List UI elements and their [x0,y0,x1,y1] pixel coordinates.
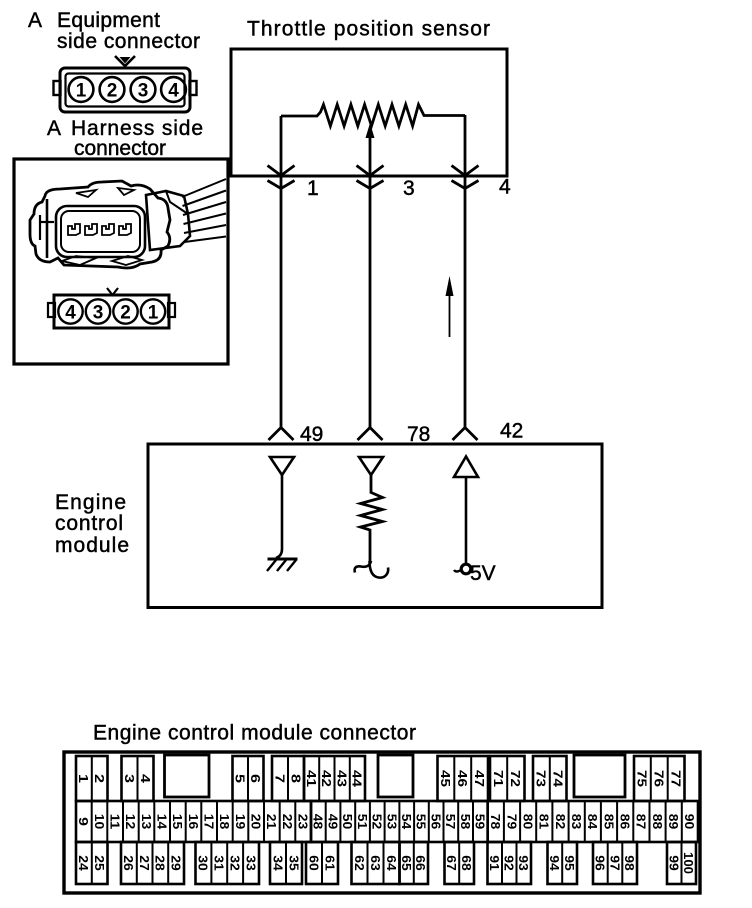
svg-text:55: 55 [414,814,429,830]
svg-text:78: 78 [488,814,503,830]
connector pin group row1 5-6 [233,756,264,801]
svg-text:2: 2 [120,303,131,324]
svg-text:54: 54 [399,814,414,830]
svg-text:47: 47 [472,770,487,787]
connector fork at ECM pin 49 [269,428,294,441]
svg-text:26: 26 [121,855,136,871]
svg-text:Equipment: Equipment [57,9,160,32]
svg-text:60: 60 [306,855,321,871]
svg-text:3: 3 [403,177,415,200]
blank key block row1 right [574,755,625,797]
svg-text:13: 13 [139,814,154,830]
svg-text:84: 84 [585,814,600,830]
svg-text:19: 19 [233,814,248,830]
svg-text:59: 59 [473,814,488,830]
svg-text:63: 63 [368,855,383,871]
svg-text:95: 95 [562,855,577,871]
svg-text:31: 31 [212,855,227,871]
svg-text:77: 77 [668,770,683,787]
svg-text:96: 96 [593,855,608,871]
ECM pin 78 input triangle [359,457,383,475]
svg-text:15: 15 [170,814,185,830]
svg-text:connector: connector [74,137,166,160]
svg-text:module: module [55,534,129,557]
svg-text:1: 1 [76,81,87,102]
svg-text:93: 93 [516,855,531,871]
connector pin group row3 99-100 [667,842,697,884]
svg-text:1: 1 [148,303,159,324]
svg-text:18: 18 [217,814,232,830]
svg-text:94: 94 [547,855,562,871]
connector pin group row3 34-35 [270,842,302,884]
wire: pin 42 to 5V [465,477,468,564]
svg-text:43: 43 [334,770,349,787]
svg-text:3: 3 [122,774,137,783]
svg-text:76: 76 [652,770,667,787]
connector pin group row1 3-4 [122,756,154,801]
svg-text:17: 17 [202,814,217,830]
connector pin group row1 1-2 [76,756,108,801]
connector pin group row3 26-29 [121,842,184,884]
svg-text:24: 24 [76,855,91,871]
svg-text:86: 86 [618,814,633,830]
svg-text:34: 34 [270,855,285,871]
svg-text:20: 20 [249,814,264,830]
svg-text:29: 29 [168,855,183,871]
svg-text:3: 3 [138,81,149,102]
svg-text:25: 25 [92,855,107,871]
svg-text:27: 27 [137,855,152,871]
svg-text:side connector: side connector [57,30,200,53]
svg-text:3: 3 [93,303,104,324]
svg-text:32: 32 [228,855,243,871]
wire: pin 49 to ground [276,475,282,558]
potentiometer resistor (TPS) [281,105,465,127]
svg-text:48: 48 [311,814,326,830]
resistor R (ECM internal) [361,475,383,562]
svg-text:10: 10 [92,814,107,830]
svg-text:8: 8 [288,774,303,783]
svg-text:89: 89 [666,814,681,830]
svg-text:67: 67 [444,855,459,871]
connector pin group row3 96-98 [593,842,637,884]
connector pin group row1 71-72 [490,756,525,801]
svg-text:46: 46 [455,770,470,787]
svg-text:28: 28 [153,855,168,871]
connector pin group row3 30-33 [196,842,260,884]
svg-text:1: 1 [307,177,319,200]
ground symbol [267,559,298,571]
svg-text:control: control [55,512,123,535]
svg-text:79: 79 [504,814,519,830]
wire: TPS terminal 1 to ECM pin 49 [280,116,283,427]
connector fork at ECM pin 42 [453,428,478,441]
svg-text:A: A [47,117,61,140]
svg-text:81: 81 [537,814,552,830]
svg-text:62: 62 [352,855,367,871]
svg-text:9: 9 [76,817,91,826]
svg-text:87: 87 [634,814,649,830]
svg-text:56: 56 [429,814,444,830]
svg-text:7: 7 [272,774,287,783]
svg-text:A: A [28,9,42,32]
svg-text:35: 35 [286,855,301,871]
ECM pin 42 output triangle [454,457,478,478]
wire: TPS terminal 3 (wiper) to ECM pin 78 [369,130,372,427]
connector pass-through at TPS terminal 3 [357,166,384,176]
svg-text:45: 45 [438,770,453,787]
svg-text:75: 75 [635,770,650,787]
svg-text:72: 72 [508,770,523,787]
svg-text:42: 42 [319,770,334,787]
svg-text:22: 22 [280,814,295,830]
TPS wiper arrow (terminal 3) [366,123,375,138]
connector pin group row3 60-61 [306,842,338,884]
svg-text:90: 90 [682,814,697,830]
svg-text:85: 85 [601,814,616,830]
svg-text:11: 11 [108,814,123,830]
connector pin group row1 75-77 [634,756,685,801]
svg-text:53: 53 [384,814,399,830]
svg-text:41: 41 [304,770,319,787]
svg-text:65: 65 [399,855,414,871]
connector pin group row1 73-74 [533,756,567,801]
connector fork at ECM pin 78 [358,428,383,441]
svg-text:33: 33 [243,855,258,871]
wire: TPS terminal 4 to ECM pin 42 [464,115,467,427]
svg-text:64: 64 [384,855,399,871]
connector pin group row3 94-95 [547,842,577,884]
connector pin group row2 48-59 [311,801,488,842]
svg-text:12: 12 [123,814,138,830]
svg-text:44: 44 [350,770,365,788]
ECM pin 49 input triangle [270,457,294,475]
current direction arrow (5V feed) [446,276,454,337]
svg-text:66: 66 [413,855,428,871]
svg-text:1: 1 [76,774,91,783]
connector pin group row2 78-90 [488,801,698,842]
svg-text:52: 52 [370,814,385,830]
harness connector illustration [30,179,226,268]
svg-text:83: 83 [569,814,584,830]
svg-text:51: 51 [355,814,370,830]
svg-text:2: 2 [92,774,107,783]
svg-text:23: 23 [296,814,311,830]
harness connector pin face (pins 4 3 2 1) [48,288,175,328]
svg-text:5V: 5V [470,562,496,585]
svg-text:21: 21 [264,814,279,830]
connector pin group row3 67-68 [444,842,474,884]
svg-text:2: 2 [107,81,118,102]
connector pin group row3 65-66 [399,842,428,884]
svg-text:92: 92 [502,855,517,871]
svg-text:5: 5 [233,774,248,783]
svg-text:49: 49 [325,814,340,830]
svg-text:99: 99 [667,855,682,871]
svg-text:61: 61 [322,855,337,871]
svg-text:58: 58 [458,814,473,830]
svg-text:42: 42 [500,420,523,443]
svg-text:Engine: Engine [55,491,126,514]
connector pin group row1 45-47 [438,756,489,801]
svg-text:98: 98 [622,855,637,871]
harness-side connector box [14,159,228,364]
svg-text:68: 68 [459,855,474,871]
connector pass-through at TPS terminal 1 [268,166,295,176]
svg-text:97: 97 [607,855,622,871]
svg-text:30: 30 [196,855,211,871]
engine control module box [148,444,602,608]
connector pass-through at TPS terminal 4 [452,166,479,176]
svg-text:Engine control module connecto: Engine control module connector [93,722,416,745]
svg-text:82: 82 [553,814,568,830]
engine control module connector outline [64,752,700,893]
connector A equipment-side (pins 1 2 3 4) [54,56,197,112]
svg-text:73: 73 [534,770,549,787]
connector pin group row2 9-23 [76,801,311,842]
label: Engine control module [55,491,129,557]
svg-text:57: 57 [443,814,458,830]
svg-text:4: 4 [168,81,179,102]
label: A Equipment side connector [28,9,200,53]
connector pin group row1 41-44 [304,756,365,801]
5V supply terminal [454,564,471,574]
open-end hook (pin 78 branch) [355,561,371,573]
throttle position sensor box [231,49,507,176]
svg-text:88: 88 [650,814,665,830]
svg-text:4: 4 [499,176,511,199]
svg-text:50: 50 [340,814,355,830]
connector pin group row3 62-64 [352,842,400,884]
svg-text:80: 80 [520,814,535,830]
svg-text:4: 4 [65,303,76,324]
connector pin group row3 24-25 [76,842,108,884]
connector pin group row3 91-93 [487,842,531,884]
label: A Harness side connector [47,117,203,160]
svg-text:74: 74 [550,770,565,788]
svg-text:91: 91 [487,855,502,871]
svg-text:Throttle position sensor: Throttle position sensor [247,18,490,41]
blank key block row1 middle [378,755,413,797]
svg-text:100: 100 [681,852,696,874]
svg-text:4: 4 [138,774,153,784]
svg-text:16: 16 [186,814,201,830]
svg-text:71: 71 [491,770,506,787]
blank key block row1 left [165,755,210,797]
svg-text:6: 6 [248,774,263,783]
connector pin group row1 7-8 [272,756,304,801]
svg-text:14: 14 [155,814,170,830]
